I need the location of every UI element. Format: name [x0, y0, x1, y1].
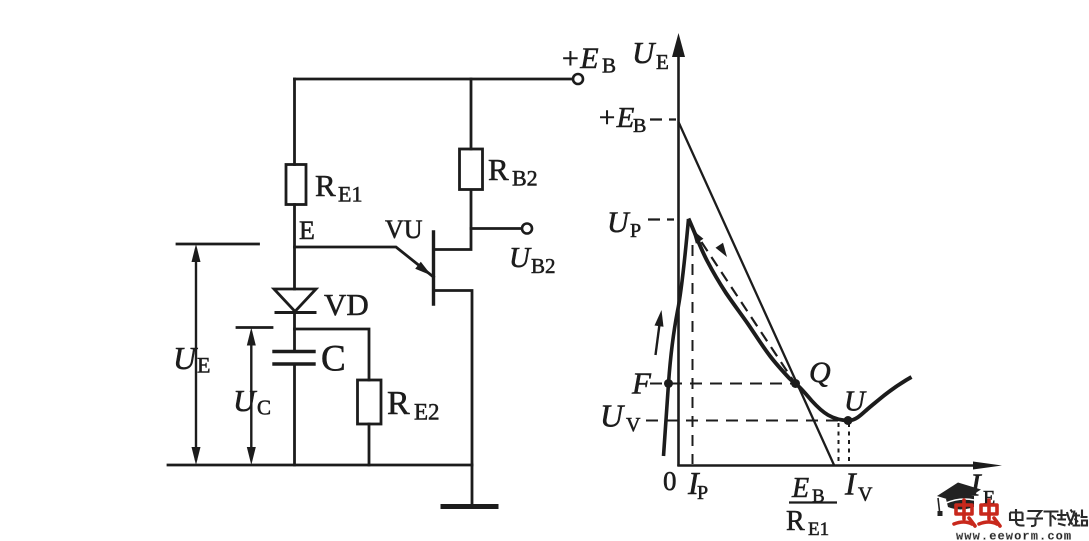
svg-text:E1: E1 — [338, 182, 362, 207]
svg-text:B2: B2 — [531, 254, 556, 278]
svg-text:E2: E2 — [414, 400, 440, 425]
svg-text:U: U — [607, 206, 631, 239]
svg-text:C: C — [257, 396, 271, 420]
svg-text:P: P — [697, 482, 708, 504]
svg-text:E: E — [299, 216, 315, 245]
svg-text:E1: E1 — [808, 519, 829, 540]
svg-text:www.eeworm.com: www.eeworm.com — [956, 530, 1072, 541]
svg-text:U: U — [600, 398, 625, 434]
svg-text:B: B — [812, 486, 825, 507]
svg-text:U: U — [173, 340, 198, 376]
svg-text:U: U — [632, 35, 657, 70]
svg-text:C: C — [321, 339, 346, 380]
svg-text:R: R — [488, 152, 509, 187]
svg-text:F: F — [631, 366, 652, 401]
svg-text:E: E — [656, 50, 669, 74]
svg-text:B: B — [602, 54, 616, 78]
svg-text:VU: VU — [385, 215, 423, 244]
svg-text:R: R — [786, 506, 805, 537]
svg-text:P: P — [630, 220, 641, 242]
svg-text:E: E — [197, 353, 210, 378]
svg-text:R: R — [315, 168, 336, 203]
svg-text:R: R — [387, 385, 410, 422]
svg-text:0: 0 — [663, 466, 677, 496]
svg-text:U: U — [844, 386, 867, 418]
svg-text:+E: +E — [597, 102, 635, 134]
svg-text:Q: Q — [809, 356, 831, 389]
svg-text:V: V — [858, 484, 873, 506]
svg-text:U: U — [233, 383, 258, 418]
svg-text:VD: VD — [324, 287, 369, 322]
svg-text:B2: B2 — [512, 166, 538, 191]
svg-text:B: B — [633, 115, 646, 137]
svg-text:V: V — [626, 414, 641, 436]
svg-text:+E: +E — [560, 42, 599, 75]
svg-text:I: I — [844, 466, 857, 502]
svg-text:U: U — [509, 242, 532, 274]
svg-text:E: E — [791, 473, 809, 504]
